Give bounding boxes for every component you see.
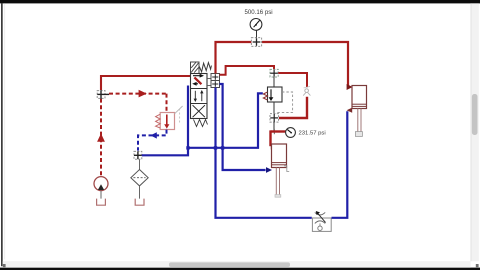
flow arrow right on pilot branch (139, 90, 147, 98)
valve V1 port stubs (207, 78, 211, 80)
relief valve R1 body (160, 113, 174, 130)
node D (reducing valve inlet) (270, 69, 278, 77)
flow arrow left on relief return (150, 132, 156, 138)
wire: dashed drop to relief valve (166, 94, 168, 113)
svg-text:500.16 psi: 500.16 psi (245, 9, 273, 16)
flow arrow into cylinder C1 rod side (266, 167, 272, 173)
cylinder C1 (272, 144, 287, 168)
wire: filter to tank (139, 186, 141, 199)
svg-text:231.57 psi: 231.57 psi (299, 131, 326, 137)
horizontal scrollbar left arrow (3, 264, 6, 267)
gauge G1 (250, 19, 262, 31)
valve V1 cell3 crossed (193, 105, 205, 117)
valve V1 solenoid actuator (191, 62, 200, 74)
wire: dashed pilot branch to relief valve (109, 93, 167, 95)
valve V1 bottom spring (194, 120, 208, 127)
wire: reducing valve to node E (273, 102, 275, 114)
wire: flow control to cylinder C2 rod side (332, 111, 348, 218)
wire: valve port to reducing valve branch (220, 66, 275, 75)
gauge G2 (286, 128, 296, 138)
flow arrow up on pump riser (97, 134, 105, 142)
flow control valve FC1 (312, 211, 331, 231)
tank T1 (filter drain) (135, 199, 144, 206)
flow arrow into cylinder C2 (347, 84, 353, 90)
wire: valve port B to cylinder C1 rod side (220, 84, 266, 170)
junction dot 2 (214, 146, 217, 149)
window top bar (0, 0, 480, 3)
relief valve R1 pilot line (175, 106, 183, 114)
horizontal scrollbar track (3, 261, 471, 267)
wire: dashed tank return from relief valve (138, 130, 167, 151)
cylinder C2 rod end block (355, 132, 362, 137)
valve V1 cell2 arrows (194, 90, 204, 102)
wire: tee down to cylinder C1 (269, 130, 271, 146)
pump P1 (94, 177, 108, 191)
node C (gauge G1 tap) (251, 38, 261, 47)
horizontal scrollbar right arrow (476, 264, 479, 267)
wire: pump to tank (100, 191, 102, 199)
wire: check valve bypass (278, 73, 307, 87)
window bottom bar (0, 268, 480, 270)
wire: valve tank port down and to flow control (216, 88, 312, 218)
wire: tank trunk (188, 93, 263, 147)
wire: pump suction dashed riser (100, 99, 102, 177)
check valve CV1 (303, 86, 310, 95)
valve V1 body (191, 74, 208, 119)
cylinder C2 rod (358, 109, 361, 132)
cylinder C1 rod (275, 168, 281, 198)
pressure reducing valve PRV1 (268, 87, 283, 102)
wire: node to filter (139, 160, 141, 170)
wire: valve to main pressure line (216, 42, 349, 86)
junction dot 3 (221, 146, 224, 149)
cylinder C1 rod-side port stub (284, 166, 289, 172)
window left border (1, 3, 3, 266)
node A (pump outlet) (97, 90, 109, 99)
node E (reduced pressure) (270, 114, 279, 123)
PRV1 spring (263, 92, 267, 100)
vertical scrollbar track (471, 3, 479, 261)
flow arrow into cylinder C1 (271, 144, 277, 150)
gauge G1 stem (256, 30, 258, 37)
node B (tank header) (134, 151, 142, 159)
wire: tee to gauge G2 (271, 130, 287, 132)
wire: node E down to tee (273, 122, 275, 131)
flow arrow at cylinder C2 rod port (347, 108, 353, 113)
filter F1 (131, 170, 148, 186)
valve V1 top spring (199, 63, 211, 72)
junction dot 1 (186, 146, 189, 149)
cylinder C2 (352, 86, 367, 109)
tank T2 (pump suction) (97, 199, 106, 206)
horizontal scrollbar thumb (169, 262, 290, 267)
vertical scrollbar thumb (472, 94, 478, 135)
wire: node D to reducing valve (273, 77, 275, 87)
valve V1 cell1 arrows (192, 74, 204, 86)
valve V1 port node squares (211, 74, 220, 88)
PRV1 pilot dashed loop (277, 92, 293, 113)
tee junction cross (272, 131, 277, 133)
relief valve R1 spring (156, 114, 161, 128)
wire: supply line pump to valve (101, 76, 192, 90)
wire: valve left port to tank header (142, 86, 188, 156)
wire: bypass down to node E (279, 97, 307, 118)
